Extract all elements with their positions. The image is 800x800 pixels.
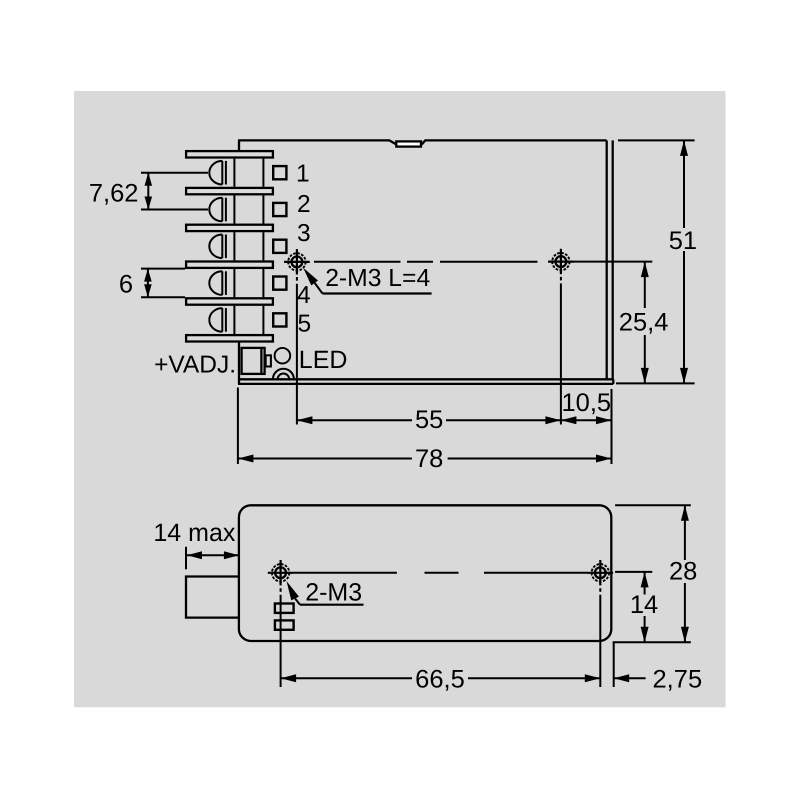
svg-text:55: 55 <box>415 406 443 434</box>
svg-text:2: 2 <box>297 191 311 218</box>
svg-text:2,75: 2,75 <box>653 665 703 693</box>
svg-text:51: 51 <box>669 227 697 255</box>
svg-text:3: 3 <box>297 220 311 247</box>
svg-text:66,5: 66,5 <box>415 665 465 693</box>
svg-text:+VADJ.: +VADJ. <box>154 351 236 378</box>
svg-text:78: 78 <box>415 445 443 473</box>
svg-text:1: 1 <box>296 160 310 187</box>
svg-text:10,5: 10,5 <box>561 389 611 417</box>
svg-text:LED: LED <box>299 346 348 374</box>
svg-text:28: 28 <box>669 558 697 586</box>
svg-text:25,4: 25,4 <box>619 309 669 337</box>
svg-text:7,62: 7,62 <box>89 179 139 207</box>
svg-text:14: 14 <box>630 591 658 619</box>
svg-text:14 max: 14 max <box>153 519 235 547</box>
svg-text:5: 5 <box>298 311 312 338</box>
svg-text:2-M3 L=4: 2-M3 L=4 <box>325 265 430 292</box>
svg-text:4: 4 <box>297 282 311 309</box>
svg-text:6: 6 <box>119 271 133 299</box>
svg-text:2-M3: 2-M3 <box>305 579 362 607</box>
